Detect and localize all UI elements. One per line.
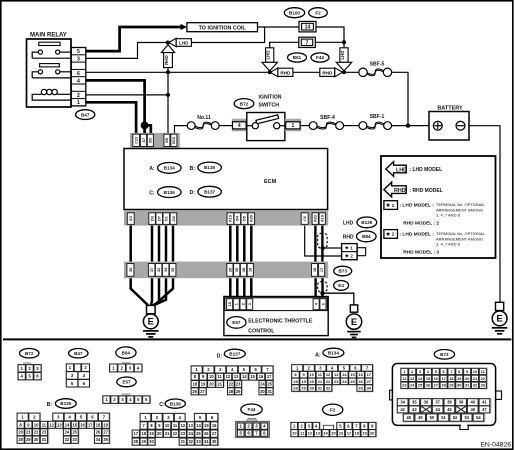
svg-text:29: 29 [449,383,454,388]
svg-text:12: 12 [226,374,231,379]
svg-text:11: 11 [217,374,222,379]
svg-text:19: 19 [301,379,306,384]
battery BAT1 [429,105,469,140]
svg-text:22: 22 [34,430,39,435]
connector label D:B137 [190,190,196,196]
svg-text:51: 51 [441,415,446,420]
svg-text:C:: C: [159,402,165,408]
wire fuse No.11 to ignition switch [219,125,232,127]
svg-text:26: 26 [426,383,431,388]
svg-text:20: 20 [157,431,162,436]
svg-text:RHD MODEL : 2: RHD MODEL : 2 [403,221,439,227]
ECM output pin strip [124,211,328,226]
svg-text:35: 35 [171,268,175,272]
svg-text:2: 2 [241,303,245,305]
svg-text:13: 13 [410,376,415,381]
ground E middle [346,314,361,338]
svg-text:D1: D1 [165,216,169,221]
wire vertical node x=168 down to ECM pin B5 [167,43,169,137]
svg-text:IGNITION: IGNITION [259,94,282,100]
wire ECM A20 to 19 (thick) [250,226,253,262]
svg-text:15: 15 [426,376,431,381]
svg-text:29: 29 [236,389,241,394]
arrow RHD (points right on bus toward SBF-5) [320,68,343,77]
connector label B72 [234,99,254,109]
inline connector (dashed) B73/E4 [318,282,327,292]
svg-text:19: 19 [201,381,206,386]
svg-text:19: 19 [362,431,367,436]
svg-text:D2: D2 [172,216,176,221]
ground terminal box left [147,305,156,313]
svg-text:B2: B2 [149,138,153,143]
svg-text:24: 24 [342,379,347,384]
svg-text:20: 20 [310,379,315,384]
svg-text:31: 31 [318,385,323,390]
svg-text:24: 24 [260,381,265,386]
svg-text:E: E [496,314,502,325]
junction dot SBF-5 branch [406,123,410,127]
svg-text:10: 10 [473,369,478,374]
svg-text:LHD: LHD [266,50,271,59]
connector label B136 [357,217,377,228]
svg-text:EN-04826: EN-04826 [480,442,511,449]
svg-text:12: 12 [308,431,313,436]
svg-text:B134: B134 [164,166,175,171]
connector label A:B134 [149,166,155,172]
connector label B84 [116,347,136,358]
svg-text:B:: B: [47,402,53,408]
svg-text:31: 31 [181,439,186,444]
wire branch to ECM pin B2 [145,125,151,136]
svg-text:16: 16 [212,423,217,428]
svg-text:31: 31 [42,437,47,442]
wire ECM to throttle pin 3 (thick) [250,278,253,297]
svg-text:18: 18 [449,376,454,381]
svg-text:No.11: No.11 [197,115,211,121]
svg-text:26: 26 [192,389,197,394]
connector label C:B136 [149,190,155,196]
svg-text:B47: B47 [81,112,90,117]
main relay pin strip pins 5,3,6,4,2,1 [71,48,86,107]
legend box [381,156,496,258]
ground terminal box middle [350,305,357,312]
junction big dot pins 4/1 [141,122,149,130]
junction dot pin3/LHD node [166,41,170,45]
svg-text:12: 12 [181,423,186,428]
svg-text:17: 17 [320,268,324,272]
svg-text:A20: A20 [250,215,254,222]
label LHD B136 [343,221,354,227]
svg-text:16: 16 [434,376,439,381]
svg-text:: RHD MODEL: : RHD MODEL [409,188,442,194]
svg-text:26: 26 [96,430,101,435]
svg-text:E57: E57 [232,320,241,325]
connector label B136 [158,187,182,198]
svg-text:RHD: RHD [322,70,333,75]
relay contact bar 1 [39,42,60,45]
svg-text:D3: D3 [150,216,154,221]
svg-text:29: 29 [301,385,306,390]
svg-text:RHD: RHD [280,70,291,75]
wire fuse7 right to junction [315,41,344,43]
svg-text:B5: B5 [165,138,169,143]
svg-text:CONTROL: CONTROL [248,329,275,335]
svg-text:1: 1 [392,203,395,209]
svg-text:36: 36 [129,268,133,272]
svg-text:13: 13 [316,431,321,436]
connector label B47 [69,349,88,358]
svg-text:A19: A19 [229,215,233,222]
svg-text:E: E [148,317,154,328]
svg-text:34: 34 [96,437,101,442]
svg-text:23: 23 [334,379,339,384]
svg-text:32: 32 [65,437,70,442]
svg-text:18: 18 [293,379,298,384]
wire 17 to throttle (thick) [321,278,323,297]
connector label B61 [288,53,307,62]
svg-text:LHD: LHD [340,50,345,59]
wire ECM D7 to 32 (thick) [158,226,161,262]
svg-text:B135: B135 [60,401,71,406]
svg-text:RHD: RHD [343,235,354,241]
connector label F44 [311,53,329,62]
svg-text:21: 21 [217,381,222,386]
svg-text:50: 50 [430,415,435,420]
svg-text:LHD: LHD [343,221,354,227]
svg-text:7: 7 [306,40,309,46]
svg-text:25: 25 [72,430,77,435]
svg-text:18: 18 [96,422,101,427]
svg-text:SBF-1: SBF-1 [370,114,385,120]
svg-text:27: 27 [367,379,372,384]
svg-text:38: 38 [447,400,452,405]
svg-text:26: 26 [204,431,209,436]
wire fuse No.11 to ECM B16 [175,126,188,136]
svg-text:16: 16 [339,431,344,436]
fuse SBF-4 [309,115,343,129]
wire ECM D5 to 38 (thick) [243,226,246,262]
connector label B84 [357,231,377,242]
svg-text:22: 22 [326,379,331,384]
wire switch to SBF-4 [301,125,310,127]
svg-text:32: 32 [188,439,193,444]
svg-text:41: 41 [482,400,487,405]
svg-text:28: 28 [18,437,23,442]
svg-text:29: 29 [141,439,146,444]
svg-text:31: 31 [267,389,272,394]
svg-text:13: 13 [334,372,339,377]
svg-text:16: 16 [259,374,264,379]
wire ECM D2 to 35 (thick) [172,226,175,262]
section divider line [3,338,511,340]
svg-text:17: 17 [441,376,446,381]
connector pinout D:B137 [217,354,223,360]
svg-text:TO IGNITION COIL: TO IGNITION COIL [199,25,247,31]
svg-text:44: 44 [435,407,440,412]
arrow LHD (points down at x=344) [336,48,352,71]
svg-text:39: 39 [459,400,464,405]
svg-text:14: 14 [196,423,201,428]
svg-text:2: 2 [392,232,395,238]
svg-text:D5: D5 [243,216,247,221]
wire LHD drop to bus [269,42,271,72]
wire ECM D1 to 34 (thick) [165,226,168,262]
svg-text:19: 19 [149,431,154,436]
wire relay pin3 up to LHD node [86,43,168,59]
wire SBF-5 to battery bus [392,72,408,125]
svg-text:B:: B: [190,166,196,172]
svg-text:48: 48 [406,415,411,420]
svg-text:25: 25 [350,379,355,384]
svg-text:21: 21 [318,379,323,384]
svg-text:37: 37 [150,268,154,272]
svg-text:B136: B136 [361,220,372,225]
svg-text:31: 31 [465,383,470,388]
svg-text:C23: C23 [134,137,138,144]
svg-text:15: 15 [73,422,78,427]
svg-text:: LHD MODEL: : LHD MODEL [409,167,442,173]
wire ECM to throttle pin 1 (thick) [236,278,239,297]
svg-text:1: 1 [77,100,80,106]
svg-text:C6: C6 [303,216,307,221]
svg-text:19: 19 [457,376,462,381]
svg-text:E4: E4 [338,283,344,288]
svg-text:B73: B73 [440,352,449,357]
svg-text:ELECTRONIC THROTTLE: ELECTRONIC THROTTLE [248,319,313,325]
svg-text:18: 18 [313,268,317,272]
fuse box No.14 [299,21,316,32]
svg-text:10: 10 [165,423,170,428]
svg-text:F44: F44 [316,55,324,60]
ground E right [492,302,508,334]
wire relay pin1 (thick) down to ECM [86,102,136,136]
svg-text:20: 20 [370,431,375,436]
svg-text:SWITCH: SWITCH [259,103,280,109]
svg-text:24: 24 [65,430,70,435]
svg-text:15: 15 [331,431,336,436]
connector pinout C:B136 [159,402,165,408]
svg-text:21: 21 [26,430,31,435]
arrow LHD (points left at pin3 node) [169,38,192,47]
svg-text:A19: A19 [321,215,325,222]
svg-text:52: 52 [453,415,458,420]
svg-text:20: 20 [228,268,232,272]
connector label B135 [55,399,76,409]
ECM U1 [124,149,328,210]
svg-text:12: 12 [326,372,331,377]
svg-text:30: 30 [34,437,39,442]
ignition switch terminal 1 [285,119,301,132]
svg-text:20: 20 [465,376,470,381]
svg-text:19: 19 [249,268,253,272]
connector label B134 [323,348,344,357]
svg-text:24: 24 [410,383,415,388]
svg-text:17: 17 [267,374,272,379]
svg-text:15: 15 [350,372,355,377]
junction dot bus/SBF-5 [342,70,346,74]
svg-text:B135: B135 [204,165,215,170]
svg-text:28: 28 [293,385,298,390]
svg-text:27: 27 [103,430,108,435]
svg-text:23: 23 [180,431,185,436]
svg-text:4: 4 [238,123,241,129]
fuse SBF-5 [359,62,392,77]
svg-text:2: 2 [77,93,80,99]
svg-text:14: 14 [242,374,247,379]
svg-text:17: 17 [134,431,139,436]
svg-text:18: 18 [141,431,146,436]
connector label B134 [158,163,182,174]
svg-text:13: 13 [234,374,239,379]
svg-text:18: 18 [193,381,198,386]
svg-text:22: 22 [173,431,178,436]
connector label B135 [198,162,222,173]
label RHD B84 [343,235,354,241]
svg-text:B61: B61 [293,55,302,60]
arrow LHD (points down onto bus at x=269.6) [262,48,278,71]
svg-text:13: 13 [57,422,62,427]
connector label F2 [323,404,343,415]
svg-text:RHD: RHD [164,55,169,65]
svg-text:B136: B136 [170,401,181,406]
svg-text:B100: B100 [289,10,300,15]
svg-text:54: 54 [476,415,481,420]
wire fuse14 to down-riser x=344 [316,27,344,42]
svg-text:: LHD MODEL :: : LHD MODEL : [400,232,435,238]
relay switch 2 contacts [32,70,70,78]
svg-text:B72: B72 [25,351,34,356]
svg-text:D:: D: [217,354,223,360]
svg-text:42: 42 [400,407,405,412]
svg-text:35: 35 [103,437,108,442]
wires ECM grounds funnel [131,278,173,305]
svg-text:26: 26 [358,379,363,384]
svg-text:33: 33 [358,385,363,390]
wire ECM to throttle pin 10 (thick) [229,278,232,297]
junction dot star1 branch [321,246,325,250]
svg-text:28: 28 [441,383,446,388]
wire node to fuse 14 riser [168,27,265,43]
svg-text:32: 32 [157,268,161,272]
wire SBF-4 to SBF-1 [344,125,360,127]
connector label B72 [20,349,39,358]
svg-text:LHD: LHD [396,167,407,173]
svg-text:14: 14 [418,376,423,381]
wire relay pin4 (thick) down to ECM [86,80,145,136]
wire ECM D3 to 37 (thick) [151,226,154,262]
wire ECM C6 to star2 terminal [305,226,342,256]
connector label B136 [165,399,185,408]
svg-text:34: 34 [367,385,372,390]
svg-text:28: 28 [229,389,234,394]
svg-text:35: 35 [212,439,217,444]
svg-text:F44: F44 [248,407,256,412]
svg-text:11: 11 [173,423,178,428]
svg-text:B73: B73 [338,269,347,274]
svg-text:SBF-4: SBF-4 [320,115,335,121]
svg-text:36: 36 [424,400,429,405]
arrow RHD (points left on bus) [270,68,293,77]
svg-text:16: 16 [358,372,363,377]
svg-text:6: 6 [77,71,80,77]
svg-text:37: 37 [435,400,440,405]
junction dot ground branch [320,291,324,295]
svg-text:25: 25 [418,383,423,388]
svg-text:MAIN RELAY: MAIN RELAY [30,33,67,39]
connector label B137 [224,349,245,358]
fuse No.11 [187,115,219,129]
svg-text:C:: C: [149,190,155,196]
wire ECM A23 to 18 (thick) [314,226,316,262]
svg-text:33: 33 [481,383,486,388]
svg-text:30: 30 [260,389,265,394]
svg-text:1: 1 [235,303,239,305]
svg-text:34: 34 [204,439,209,444]
throttle pin cells [227,299,326,310]
svg-text:B134: B134 [328,350,339,355]
svg-text:3, 4, 7 AND 8: 3, 4, 7 AND 8 [436,242,461,247]
svg-text:15: 15 [204,423,209,428]
svg-text:25: 25 [267,381,272,386]
svg-text:49: 49 [418,415,423,420]
svg-text:3: 3 [77,56,80,62]
svg-text:10: 10 [292,431,297,436]
ground E left [143,314,159,337]
svg-text:E57: E57 [122,380,131,385]
inline connector (dashed) LHD B136 / RHD B84 [318,233,327,248]
svg-text:43: 43 [412,407,417,412]
svg-text:RHD MODEL : 3: RHD MODEL : 3 [403,250,439,256]
svg-text:21: 21 [473,376,478,381]
junction dot fuse7/fuse14 [342,40,346,44]
svg-text:SBF-5: SBF-5 [370,62,385,68]
connector pinout A:B134 [315,353,321,359]
junction dot pin6 bus [166,70,170,74]
svg-text:30: 30 [149,439,154,444]
connector label E57 [117,377,136,387]
ECM lower pin strip [124,262,328,279]
svg-text:B84: B84 [122,350,131,355]
TO IGNITION COIL box [187,23,258,32]
svg-text:6: 6 [321,303,325,305]
svg-text:4: 4 [77,78,80,84]
svg-text:A:: A: [149,166,155,172]
connector pinout B:B135 [47,402,53,408]
relay contact bar 2 [40,64,60,67]
svg-text:27: 27 [212,431,217,436]
svg-text:17: 17 [367,372,372,377]
wire ignition coil box to fuse 14 [258,26,300,28]
svg-text:3, 4, 7 AND 8: 3, 4, 7 AND 8 [436,213,461,218]
svg-text:ECM: ECM [264,179,277,185]
svg-text:B47: B47 [74,351,83,356]
svg-text:46: 46 [470,407,475,412]
svg-text:B137: B137 [229,351,240,356]
svg-text:14: 14 [342,372,347,377]
svg-text:22: 22 [229,381,234,386]
relay coil [32,89,70,100]
svg-text:38: 38 [242,268,246,272]
ECM power connector strip (top) [130,133,180,148]
wire relay pin2 to junction [86,94,168,96]
svg-text:29: 29 [26,437,31,442]
svg-text:B137: B137 [204,189,215,194]
svg-text:D7: D7 [158,216,162,221]
svg-text:14: 14 [323,431,328,436]
svg-text:14: 14 [65,422,70,427]
svg-text:28: 28 [134,439,139,444]
svg-text:13: 13 [188,423,193,428]
